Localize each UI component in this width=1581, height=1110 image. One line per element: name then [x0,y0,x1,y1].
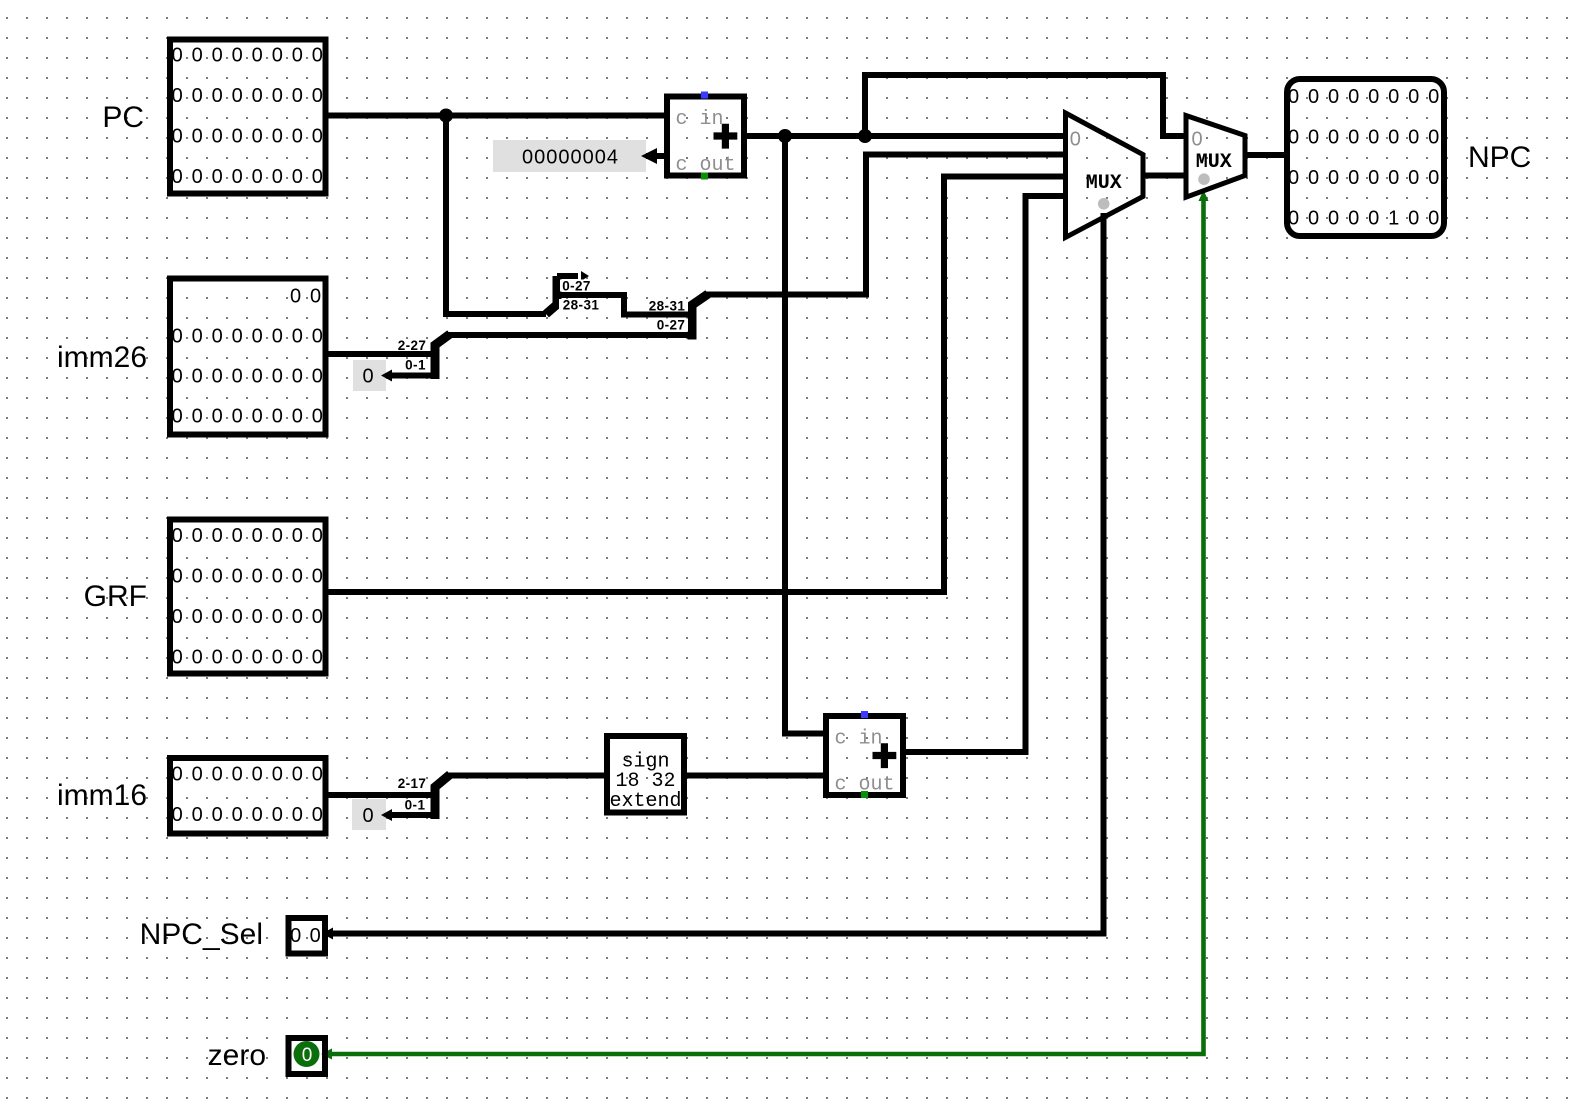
svg-text:00000000: 00000000 [172,406,332,428]
svg-text:00000004: 00000004 [522,147,619,169]
svg-text:00000000: 00000000 [172,764,332,786]
svg-text:00000100: 00000100 [1288,208,1448,230]
svg-text:0-1: 0-1 [405,798,426,813]
svg-text:00000000: 00000000 [172,126,332,148]
svg-text:zero: zero [208,1039,266,1072]
svg-text:00000000: 00000000 [1288,167,1448,189]
svg-text:00000000: 00000000 [1288,127,1448,149]
svg-text:00000000: 00000000 [172,85,332,107]
svg-text:00: 00 [290,286,330,308]
svg-text:00000000: 00000000 [172,804,332,826]
svg-text:NPC: NPC [1468,141,1531,174]
svg-text:0: 0 [302,1045,313,1066]
svg-text:0: 0 [1070,128,1081,150]
svg-text:2-27: 2-27 [398,338,427,353]
svg-text:0: 0 [362,805,373,827]
svg-text:0-27: 0-27 [562,279,591,294]
svg-text:00000000: 00000000 [172,366,332,388]
svg-text:PC: PC [102,101,144,134]
svg-text:GRF: GRF [84,580,147,613]
svg-text:imm26: imm26 [57,341,147,374]
svg-text:00: 00 [290,925,329,947]
svg-text:00000000: 00000000 [172,166,332,188]
svg-text:0: 0 [362,366,373,388]
svg-text:MUX: MUX [1196,151,1232,174]
svg-text:28-31: 28-31 [649,299,686,314]
svg-text:00000000: 00000000 [172,45,332,67]
svg-text:00000000: 00000000 [1288,86,1448,108]
svg-text:extend: extend [609,790,681,813]
svg-text:imm16: imm16 [57,779,147,812]
svg-text:0-1: 0-1 [405,358,426,373]
svg-text:00000000: 00000000 [172,525,332,547]
svg-text:00000000: 00000000 [172,566,332,588]
svg-text:MUX: MUX [1086,172,1122,195]
svg-text:c in: c in [676,108,724,131]
svg-text:c out: c out [835,774,895,797]
svg-text:c in: c in [835,728,883,751]
svg-text:28-31: 28-31 [563,298,600,313]
svg-text:00000000: 00000000 [172,606,332,628]
svg-text:00000000: 00000000 [172,647,332,669]
svg-text:2-17: 2-17 [398,776,427,791]
svg-text:c out: c out [676,154,736,177]
svg-text:0-27: 0-27 [657,318,686,333]
svg-text:00000000: 00000000 [172,326,332,348]
svg-text:NPC_Sel: NPC_Sel [140,918,263,951]
svg-text:0: 0 [1191,128,1202,150]
